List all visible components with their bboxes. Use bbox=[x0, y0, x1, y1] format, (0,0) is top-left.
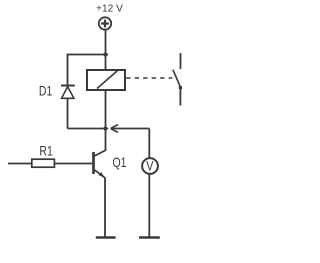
svg-text:Q1: Q1 bbox=[113, 155, 127, 171]
svg-text:R1: R1 bbox=[39, 143, 53, 159]
svg-text:D1: D1 bbox=[39, 83, 53, 99]
svg-text:V: V bbox=[146, 158, 154, 173]
svg-text:+12 V: +12 V bbox=[96, 4, 123, 15]
